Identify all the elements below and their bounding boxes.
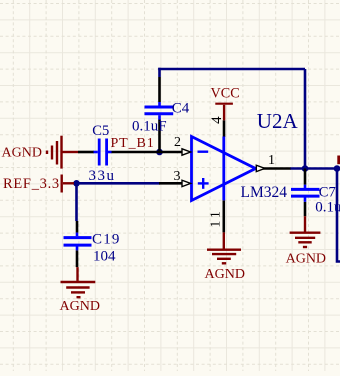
svg-text:C5: C5 bbox=[92, 123, 109, 139]
svg-text:1: 1 bbox=[268, 153, 275, 168]
svg-text:104: 104 bbox=[93, 249, 116, 265]
svg-text:0.1uF: 0.1uF bbox=[315, 200, 340, 216]
svg-text:AGND: AGND bbox=[2, 145, 42, 160]
svg-text:2: 2 bbox=[174, 135, 181, 150]
svg-text:C4: C4 bbox=[172, 101, 190, 117]
svg-text:AGND: AGND bbox=[60, 299, 100, 314]
svg-text:PT_B1: PT_B1 bbox=[111, 136, 155, 151]
svg-text:U2A: U2A bbox=[257, 109, 299, 133]
svg-text:33u: 33u bbox=[89, 168, 116, 184]
svg-text:0.1uF: 0.1uF bbox=[132, 119, 167, 135]
svg-text:4: 4 bbox=[209, 116, 225, 124]
svg-text:AGND: AGND bbox=[205, 267, 245, 282]
svg-text:LM324: LM324 bbox=[241, 184, 288, 201]
svg-text:3: 3 bbox=[174, 169, 181, 184]
svg-text:VCC: VCC bbox=[211, 86, 240, 102]
svg-text:AGND: AGND bbox=[286, 251, 326, 266]
svg-text:C7: C7 bbox=[319, 184, 336, 200]
svg-text:C19: C19 bbox=[92, 231, 121, 247]
svg-text:11: 11 bbox=[209, 208, 224, 227]
svg-text:REF_3.3: REF_3.3 bbox=[3, 176, 60, 192]
